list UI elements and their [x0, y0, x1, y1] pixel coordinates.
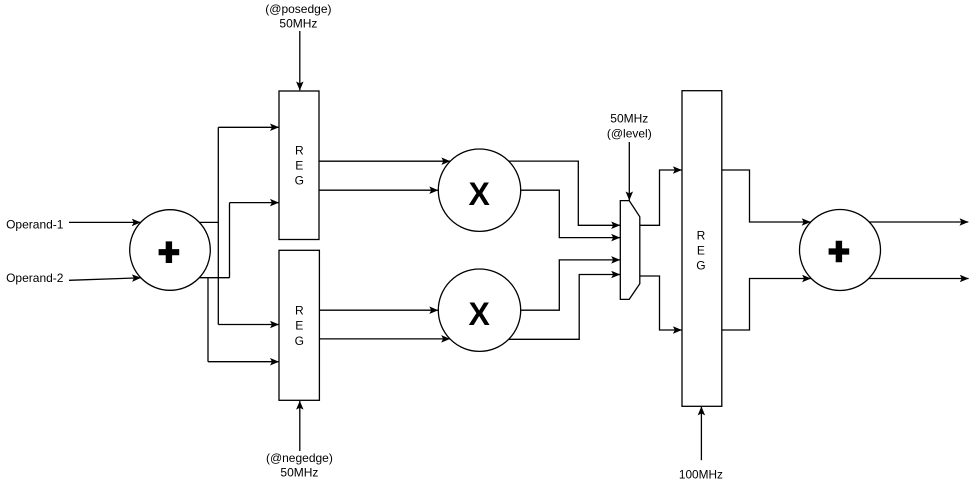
wire Operand-1 input [69, 221, 141, 223]
adder U6 plus symbol [829, 241, 850, 263]
wire X2 out2 to mux in4 [509, 275, 620, 340]
wire to REG1 input2 [230, 202, 279, 204]
wire clock level into mux [628, 142, 630, 200]
wire REG3 out2 to adder2 [722, 279, 811, 331]
node adder1 output1 fanout [199, 127, 218, 324]
svg-text:E: E [697, 243, 705, 257]
svg-text:50MHz: 50MHz [280, 466, 318, 480]
svg-text:Operand-2: Operand-2 [6, 271, 64, 285]
wire X2 out1 to mux in3 [521, 260, 620, 310]
wire REG2 out2 to X2 [319, 338, 450, 340]
mux U4 body [620, 201, 640, 300]
svg-text:(@posedge): (@posedge) [265, 2, 331, 16]
svg-text:R: R [697, 228, 706, 242]
svg-text:E: E [295, 319, 303, 333]
wire Operand-2 input [69, 278, 141, 281]
wire clock negedge into REG2 [299, 401, 301, 451]
wire REG3 out1 to adder2 [722, 170, 811, 222]
wire to REG1 input1 [218, 126, 278, 128]
wire mux out1 to REG3 in1 [640, 170, 682, 225]
svg-text:50MHz: 50MHz [610, 111, 648, 125]
wire to REG2 input2 [208, 361, 279, 363]
register REG2 box [279, 250, 319, 400]
wire to REG2 input1 [218, 324, 278, 326]
wire adder2 output1 [869, 221, 968, 223]
svg-text:R: R [295, 143, 304, 157]
svg-text:E: E [295, 159, 303, 173]
wire REG1 out1 to X1 [319, 160, 450, 162]
multiplier U2 circle [438, 149, 520, 231]
wire X1 out1 to mux in1 [509, 161, 620, 225]
svg-text:X: X [469, 176, 491, 212]
svg-text:G: G [295, 334, 304, 348]
svg-text:(@negedge): (@negedge) [266, 451, 333, 465]
svg-text:Operand-1: Operand-1 [6, 217, 64, 231]
adder U6 circle [800, 210, 881, 291]
wire REG1 out2 to X1 [319, 189, 438, 191]
multiplier U3 circle [438, 269, 520, 351]
wire X1 out2 to mux in2 [521, 190, 620, 237]
wire REG2 out1 to X2 [319, 309, 438, 311]
wire clock 100MHz into REG3 [700, 407, 702, 461]
register REG1 box [279, 91, 319, 240]
svg-text:100MHz: 100MHz [679, 468, 723, 482]
node adder1 output2 fanout [199, 203, 229, 362]
wire mux out2 to REG3 in2 [640, 276, 682, 330]
svg-text:X: X [469, 296, 491, 332]
svg-text:G: G [295, 174, 304, 188]
adder U1 circle [130, 210, 211, 291]
wire adder2 output2 [869, 278, 969, 280]
svg-text:R: R [295, 303, 304, 317]
adder U1 plus symbol [159, 241, 180, 263]
svg-text:50MHz: 50MHz [279, 17, 317, 31]
register REG3 box [682, 91, 722, 407]
svg-text:(@level): (@level) [607, 126, 652, 140]
wire clock posedge into REG1 [299, 31, 301, 90]
svg-text:G: G [696, 258, 705, 272]
